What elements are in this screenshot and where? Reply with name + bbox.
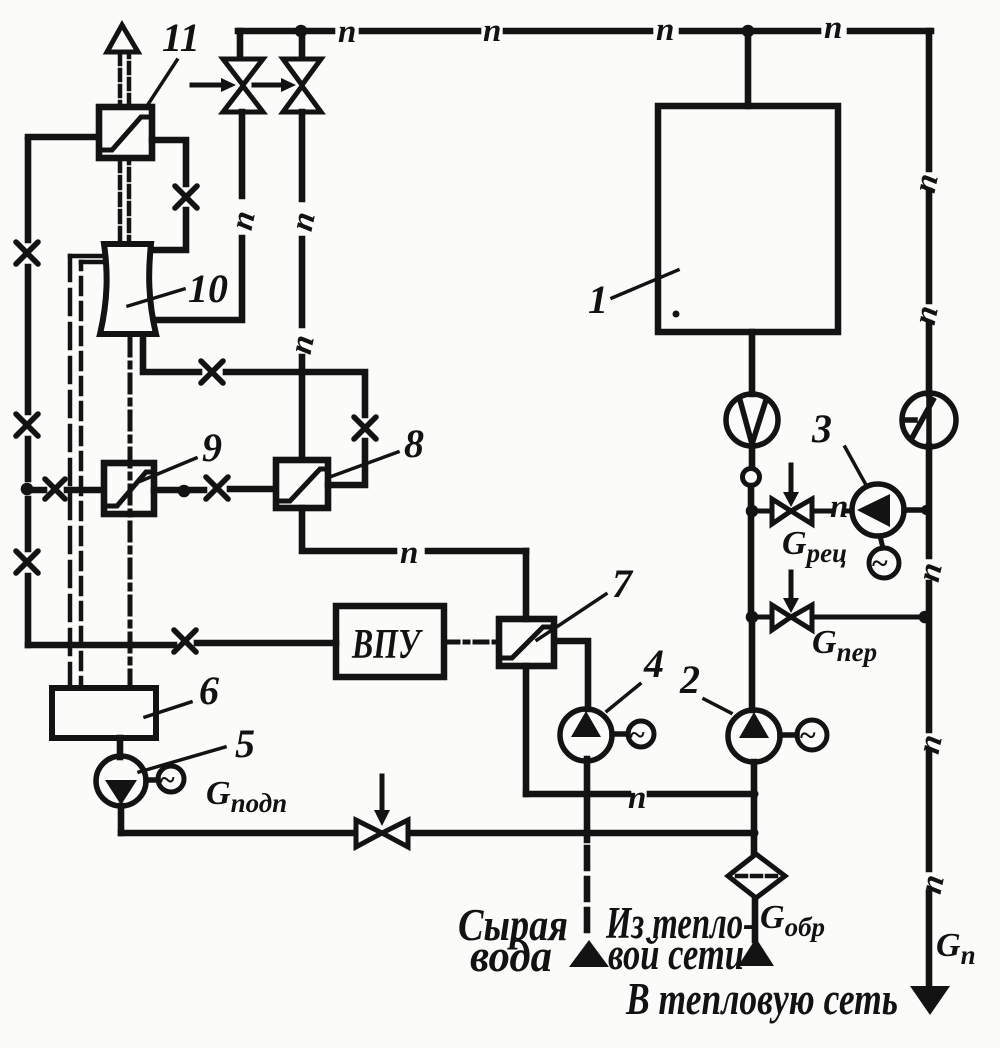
wire steam line y=794 from heater 7: [526, 791, 754, 798]
svg-text:п: п: [400, 535, 418, 571]
motor tilde marks: [160, 547, 888, 796]
wire heater 7 condensate outlet: [523, 666, 530, 794]
svg-text:8: 8: [404, 421, 424, 466]
wire column 10 left double line to tank 6: [70, 256, 104, 688]
steam line letter marks: [224, 10, 952, 897]
svg-text:п: п: [284, 209, 323, 234]
wire heater 7 steam inlet: [523, 551, 530, 619]
leader line 10: [128, 289, 184, 306]
svg-text:9: 9: [202, 425, 222, 470]
flow indicator on boiler outlet: [726, 394, 778, 446]
wire VPU left condensate line: [28, 643, 336, 645]
svg-text:Gрец: Gрец: [782, 525, 847, 568]
node junction right valve drop with dot: [295, 25, 308, 59]
X mark symbols (condensate line labels): [16, 186, 376, 652]
wire column 10 center dash line to tank 6: [128, 338, 133, 688]
flow meter G-obr (diamond): [728, 854, 785, 898]
svg-text:п: п: [656, 12, 674, 48]
svg-text:п: п: [628, 780, 646, 816]
wire boiler outlet to recirculation node: [749, 446, 756, 467]
wire tank 6 to pump 5: [117, 738, 124, 757]
svg-text:Gпер: Gпер: [812, 624, 877, 667]
svg-text:6: 6: [199, 668, 219, 713]
wire left valve steam drop to column 10: [153, 112, 242, 320]
flow indicator on right steam main: [902, 393, 956, 447]
cooler 11: [99, 107, 152, 158]
leader line 11: [147, 60, 177, 106]
motor of pump 5: [158, 766, 184, 792]
valve V-a (left top control valve): [192, 59, 263, 112]
svg-text:~: ~: [800, 719, 816, 752]
node X mark on 11 loop: [175, 186, 197, 208]
svg-text:~: ~: [630, 720, 645, 751]
pump 2 (network pump): [728, 710, 797, 762]
leader line 4: [607, 684, 640, 711]
svg-text:Gобр: Gобр: [760, 899, 825, 942]
svg-text:10: 10: [188, 266, 228, 311]
svg-text:7: 7: [612, 561, 634, 606]
svg-text:4: 4: [643, 641, 664, 686]
VPU box: [336, 606, 444, 677]
svg-text:1: 1: [588, 277, 608, 322]
pump 5 (make-up pump): [96, 756, 158, 806]
valve G-podp (make-up): [356, 776, 408, 847]
svg-text:5: 5: [235, 721, 255, 766]
leader line 7: [537, 594, 606, 640]
valve G-rec (recirculation): [752, 465, 852, 524]
motor of pump 3: [869, 536, 899, 578]
wire top steam header y=31: [238, 28, 931, 35]
wire heater 7 to VPU (dash-dot): [446, 640, 499, 645]
leader line 1: [612, 270, 678, 298]
node X mark left riser 1: [16, 242, 38, 264]
svg-text:п: п: [824, 10, 842, 46]
svg-text:п: п: [224, 208, 263, 233]
wire heater 8 bottom steam to heater 7: [302, 508, 526, 551]
svg-text:п: п: [913, 871, 952, 896]
wire cooler 11 right loop: [152, 140, 186, 250]
node X mark on VPU line: [174, 630, 196, 652]
svg-text:п: п: [907, 170, 946, 195]
svg-text:п: п: [907, 302, 946, 327]
node X mark on y372 line: [201, 361, 223, 383]
leader line 8: [327, 452, 398, 478]
leader line 9: [141, 458, 196, 481]
node junction boiler drop dot: [742, 25, 755, 38]
heater 9: [104, 463, 154, 514]
column 10: [100, 244, 156, 334]
pump 3 (recirculation pump): [852, 484, 931, 536]
wire condensate line to heater 9: [31, 487, 104, 494]
wire make-up line y=833: [121, 830, 754, 837]
wire heater 9 to heater 8: [154, 485, 276, 498]
motor of pump 4: [628, 721, 654, 747]
node X mark left riser 3: [16, 551, 38, 573]
wire right valve steam drop to heater 8: [299, 112, 306, 460]
wire boiler top feed: [745, 33, 752, 106]
node X mark on 8 loop: [354, 417, 376, 439]
vent arrow: [107, 25, 138, 52]
valve V-b (right top control valve): [254, 59, 321, 112]
svg-text:п: п: [911, 559, 950, 584]
svg-text:В тепловую сеть: В тепловую сеть: [625, 974, 898, 1024]
svg-text:вода: вода: [470, 931, 552, 981]
wire meter to network inlet: [752, 900, 759, 940]
svg-text:вой сети: вой сети: [608, 929, 744, 979]
leader line 5: [139, 747, 225, 772]
node steam outlet arrow bottom right: [910, 986, 950, 1015]
svg-text:3: 3: [811, 406, 832, 451]
leader line 3: [845, 447, 866, 485]
wire raw water riser: [583, 759, 592, 935]
wire left condensate riser x=28: [21, 137, 99, 645]
node return from network (arrow): [738, 938, 774, 966]
svg-text:11: 11: [162, 15, 200, 60]
pump 4 (raw water pump): [560, 709, 628, 761]
component number labels: [162, 15, 832, 766]
svg-text:ВПУ: ВПУ: [351, 622, 423, 668]
svg-text:~: ~: [160, 765, 175, 796]
wire pump 4 to heater 7: [554, 641, 588, 709]
node X mark near junction: [45, 479, 65, 499]
node raw water inlet (arrow): [569, 940, 609, 967]
svg-text:Gп: Gп: [936, 927, 976, 970]
valve G-per (bypass): [746, 572, 932, 630]
heater 8: [276, 460, 328, 508]
motor of pump 2: [797, 720, 827, 750]
wire pump 5 to make-up line: [118, 806, 125, 833]
wire perepusk node to pump 2: [749, 617, 756, 710]
svg-text:~: ~: [872, 547, 888, 580]
leader line 2: [704, 699, 731, 713]
heater 7: [499, 619, 554, 666]
leader line 6: [145, 702, 191, 717]
svg-text:п: п: [483, 13, 501, 49]
tank 6: [52, 688, 156, 738]
svg-text:Gподп: Gподп: [206, 775, 287, 818]
wire node to perepusk node: [746, 486, 759, 617]
svg-text:п: п: [911, 731, 950, 756]
svg-text:п: п: [338, 14, 356, 50]
wire pump 2 suction down to meter: [750, 762, 759, 853]
node junction left valve drop: [237, 31, 244, 59]
svg-text:2: 2: [679, 657, 700, 702]
wire right steam main x=929: [926, 31, 933, 986]
wire heater 8 right loop: [143, 338, 365, 485]
svg-text:п: п: [283, 332, 322, 357]
flow labels: [206, 525, 976, 1024]
svg-text:п: п: [830, 489, 848, 525]
boiler 1: [658, 106, 838, 332]
small drain circle: [743, 469, 760, 486]
node X mark between 9 and 8: [206, 477, 228, 499]
wire vent double dashed line: [120, 54, 129, 243]
node X mark left riser 2: [16, 414, 38, 436]
wire boiler bottom outlet: [749, 332, 756, 394]
